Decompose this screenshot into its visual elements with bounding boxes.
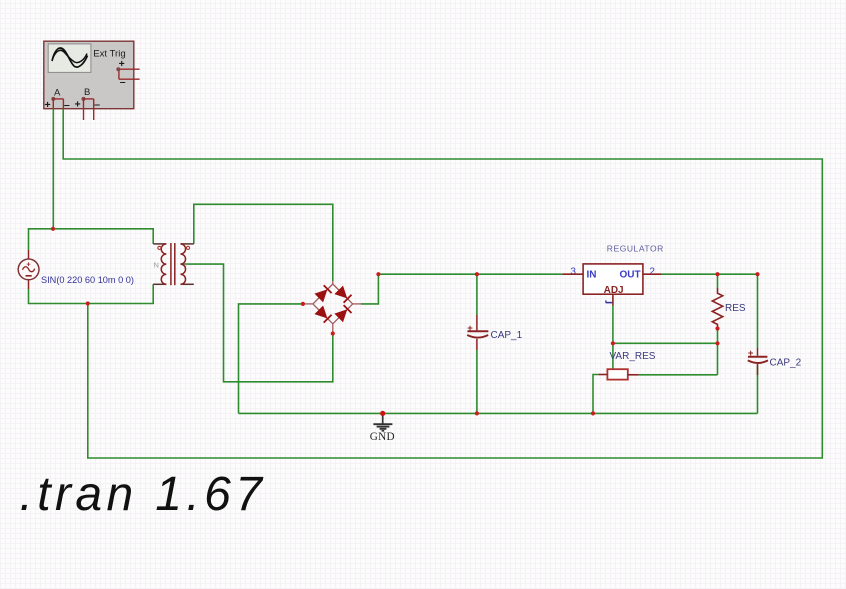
svg-text:IN: IN bbox=[587, 270, 597, 281]
svg-text:OUT: OUT bbox=[619, 270, 640, 281]
svg-text:+: + bbox=[75, 99, 81, 111]
svg-text:CAP_1: CAP_1 bbox=[491, 330, 523, 341]
svg-text:–: – bbox=[120, 76, 126, 88]
svg-text:SIN(0 220 60 10m 0 0): SIN(0 220 60 10m 0 0) bbox=[41, 275, 134, 285]
svg-text:.tran 1.67: .tran 1.67 bbox=[20, 468, 267, 521]
svg-text:+: + bbox=[748, 348, 754, 359]
svg-text:2: 2 bbox=[649, 266, 655, 277]
svg-text:GND: GND bbox=[370, 431, 395, 443]
svg-text:A: A bbox=[54, 88, 61, 99]
svg-text:VAR_RES: VAR_RES bbox=[610, 351, 656, 362]
svg-text:RES: RES bbox=[725, 303, 746, 314]
svg-text:–: – bbox=[94, 99, 100, 111]
svg-text:3: 3 bbox=[570, 266, 576, 277]
svg-text:B: B bbox=[84, 87, 90, 98]
svg-text:REGULATOR: REGULATOR bbox=[607, 243, 664, 253]
svg-text:+: + bbox=[45, 99, 51, 111]
svg-text:CAP_2: CAP_2 bbox=[770, 357, 802, 368]
svg-text:N: N bbox=[154, 261, 159, 270]
svg-text:+: + bbox=[184, 262, 188, 269]
svg-text:+: + bbox=[467, 323, 473, 334]
svg-text:–: – bbox=[64, 99, 70, 111]
